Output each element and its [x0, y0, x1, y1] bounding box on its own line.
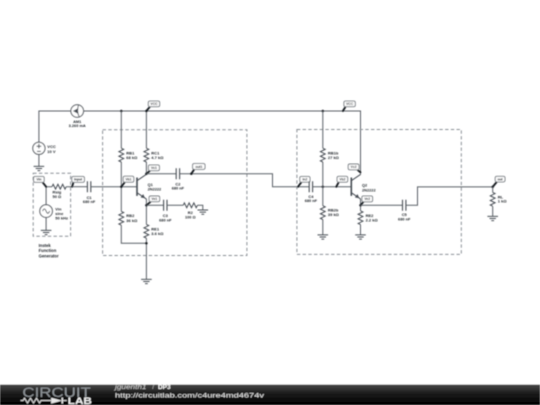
svg-text:680 nF: 680 nF	[305, 198, 318, 203]
wire C3 to R2	[167, 204, 183, 206]
wire emitter2 branch	[360, 199, 362, 235]
wire Ve2 to C5	[361, 204, 403, 206]
svg-text:680 nF: 680 nF	[172, 185, 185, 190]
resistor RE2	[358, 211, 363, 225]
resistor RB2b	[320, 206, 325, 220]
flag VCC right	[343, 107, 346, 111]
svg-text:680 nF: 680 nF	[159, 217, 172, 222]
resistor R2	[183, 203, 197, 208]
capacitor C4	[309, 181, 312, 192]
node base2 junction	[322, 185, 325, 188]
wire RC1 branch	[145, 111, 147, 174]
wire RB1-RB2 branch	[121, 111, 146, 243]
flag Vc1	[146, 171, 150, 174]
wire Vin node to Rsig and source	[45, 187, 47, 231]
node Ve1	[145, 204, 148, 207]
wire VCC source to ground	[38, 154, 40, 166]
flag out1	[191, 169, 194, 173]
flag Ve2	[361, 202, 364, 206]
wire collector1 to C2	[146, 173, 176, 175]
node Ve2	[359, 204, 362, 207]
ground stage1	[141, 279, 152, 283]
svg-text:Vc2: Vc2	[351, 165, 357, 169]
resistor RL	[490, 192, 495, 206]
svg-text:680 nF: 680 nF	[398, 216, 411, 221]
resistor RB2	[119, 211, 124, 225]
capacitor C5	[403, 200, 406, 211]
wire C1 to Q1 base	[91, 186, 137, 188]
wire VCC rail	[39, 111, 361, 174]
node rail-RB1b junction	[322, 110, 325, 113]
flag in2	[298, 182, 301, 187]
node base1 junction	[120, 185, 123, 188]
svg-text:Vin: Vin	[36, 178, 41, 182]
svg-text:/: /	[152, 384, 154, 391]
node out	[491, 186, 494, 189]
svg-text:27 kΩ: 27 kΩ	[328, 155, 340, 160]
ground RL	[487, 216, 498, 220]
flag VCC left	[146, 107, 150, 111]
resistor RB1	[119, 148, 124, 162]
svg-text:out1: out1	[195, 165, 202, 169]
ground RB2b	[318, 235, 329, 239]
flag Vc2	[357, 170, 360, 173]
capacitor C1	[87, 181, 90, 192]
svg-text:Input: Input	[74, 178, 83, 182]
voltage source VCC	[33, 142, 45, 154]
svg-text:50 kHz: 50 kHz	[55, 215, 68, 220]
svg-text:LAB: LAB	[68, 396, 92, 405]
flag Vin	[43, 182, 47, 186]
resistor Rsig	[46, 186, 72, 188]
svg-text:Vb1: Vb1	[125, 177, 131, 181]
flag Input	[72, 182, 73, 186]
resistor RB1b	[320, 148, 325, 162]
svg-text:Vb2: Vb2	[339, 178, 345, 182]
ground	[34, 166, 45, 170]
svg-text:10 V: 10 V	[47, 149, 56, 154]
svg-text:Vc1: Vc1	[151, 166, 157, 170]
wire C5 to out	[406, 187, 493, 205]
ground	[41, 230, 52, 234]
resistor RE1	[144, 224, 149, 238]
svg-text:36 kΩ: 36 kΩ	[126, 218, 138, 223]
svg-text:DP3: DP3	[158, 384, 171, 391]
flag Vb2	[336, 182, 338, 187]
svg-text:Ve2: Ve2	[364, 197, 370, 201]
node collector1	[145, 173, 148, 176]
wire C4 to Q2 base	[313, 186, 352, 188]
voltage source Vin sine	[40, 205, 53, 218]
transistor Q1 2N2222	[136, 178, 138, 196]
svg-text:Generator: Generator	[39, 253, 59, 258]
svg-text:3.260 mA: 3.260 mA	[69, 123, 86, 128]
dashed box Instek function generator	[33, 173, 70, 236]
logo resistor-diode glyph	[21, 398, 51, 403]
wire Input to C1	[72, 186, 87, 188]
svg-text:50 Ω: 50 Ω	[53, 194, 63, 199]
flag Vb1	[121, 182, 125, 187]
svg-text:in2: in2	[303, 178, 308, 182]
svg-text:out: out	[498, 177, 504, 181]
dashed box amplifier stage 1	[103, 130, 247, 256]
svg-text:3.6 kΩ: 3.6 kΩ	[151, 231, 164, 236]
svg-text:2N2222: 2N2222	[148, 187, 162, 192]
flag Ve1	[146, 202, 150, 206]
svg-text:Ve1: Ve1	[152, 197, 158, 201]
svg-text:39 kΩ: 39 kΩ	[328, 212, 340, 217]
wire Ve1 to C3	[146, 204, 163, 206]
svg-text:100 Ω: 100 Ω	[185, 214, 196, 219]
svg-text:68 kΩ: 68 kΩ	[126, 155, 138, 160]
dashed box amplifier stage 2	[297, 130, 461, 255]
capacitor C2	[176, 168, 179, 179]
node rail-RC1 junction	[145, 110, 148, 113]
ground R2	[198, 210, 209, 214]
ammeter AM1	[71, 105, 84, 118]
svg-text:1 kΩ: 1 kΩ	[498, 198, 508, 203]
svg-text:2N2222: 2N2222	[362, 187, 376, 192]
svg-text:2.2 kΩ: 2.2 kΩ	[366, 217, 379, 222]
transistor Q2 2N2222	[350, 178, 352, 196]
svg-text:680 nF: 680 nF	[83, 199, 96, 204]
svg-text:jguenth1: jguenth1	[114, 384, 147, 391]
wire emitter1 branch	[145, 199, 147, 280]
svg-text:4.7 kΩ: 4.7 kΩ	[151, 155, 164, 160]
resistor RC1	[144, 148, 149, 162]
flag out	[493, 182, 497, 187]
capacitor C3	[164, 200, 167, 211]
svg-text:VCC: VCC	[151, 102, 159, 106]
svg-text:VCC: VCC	[346, 102, 354, 106]
node rail-RB1 junction	[120, 110, 123, 113]
svg-text:http://circuitlab.com/c4ure4md: http://circuitlab.com/c4ure4md4674v	[115, 393, 265, 400]
ground RE2	[355, 235, 366, 239]
wire RB1b-RB2b branch	[322, 111, 324, 235]
wire out to RL	[492, 187, 494, 217]
wire C2 to out1 and stage2	[180, 174, 310, 187]
node bottom tie	[145, 242, 148, 245]
node out1	[190, 173, 193, 176]
